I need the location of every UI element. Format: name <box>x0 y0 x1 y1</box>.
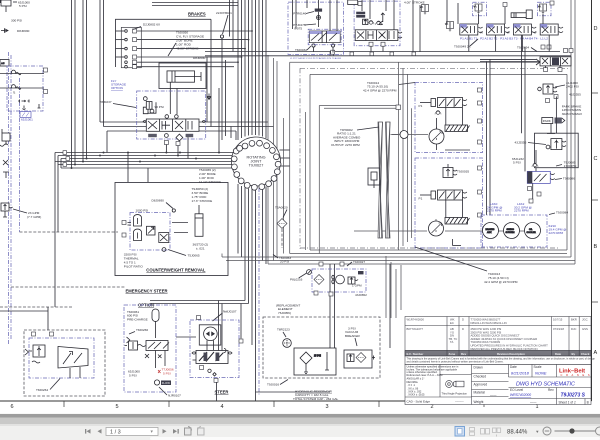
svg-text:1 GPM: 1 GPM <box>352 284 362 288</box>
valve bank drain stubs <box>230 0 550 53</box>
svg-text:10/7/15: 10/7/15 <box>553 318 563 322</box>
svg-text:2270 RPM: 2270 RPM <box>514 209 529 213</box>
svg-text:Approved: Approved <box>474 383 488 387</box>
svg-text:T9J0627: T9J0627 <box>249 164 264 168</box>
zone tick right 2 <box>592 199 599 201</box>
svg-text:8/21/2018: 8/21/2018 <box>511 371 530 376</box>
tiny anchor right <box>38 104 41 108</box>
oil cooler ports top <box>319 262 323 266</box>
rotating joint T9J0627 <box>231 137 281 190</box>
gauge <box>299 270 312 278</box>
P7R0146 coil <box>315 9 322 12</box>
EMERGENCY STEER OPTION title <box>126 289 168 308</box>
P7R orifice <box>317 12 321 27</box>
blue valve bottom <box>20 112 33 122</box>
svg-text:1700 PSI: 1700 PSI <box>564 164 577 168</box>
svg-text:5 PSI: 5 PSI <box>163 372 171 376</box>
label T5J0065 <box>168 250 200 258</box>
svg-text:T9J0084: T9J0084 <box>556 211 568 215</box>
T9J0054 ports <box>544 68 548 72</box>
zoom slider <box>555 430 596 432</box>
svg-text:⇅: ⇅ <box>13 91 16 95</box>
enclosure bottom bundle <box>222 250 575 264</box>
brakes port squares below <box>164 141 168 145</box>
zoom out btn <box>543 427 551 435</box>
lower hatched comp <box>445 218 470 225</box>
svg-text:07/19/18: 07/19/18 <box>553 327 564 331</box>
label T9J0013 <box>415 247 518 284</box>
label L4/10 tags <box>487 202 532 213</box>
enclosure box solid v2 <box>309 74 311 250</box>
cw drain circle <box>162 248 166 252</box>
upper hatched comp <box>445 125 470 132</box>
svg-text:Material: Material <box>474 391 486 395</box>
motor circle 2 <box>504 223 520 239</box>
vacuum breaker <box>344 350 375 368</box>
label 65J1232 5 PSI <box>512 157 524 165</box>
svg-text:5: 5 <box>115 404 118 410</box>
T8J0264 outer dashed box <box>24 330 105 396</box>
horizontal bus to rotating joint <box>55 153 234 169</box>
orbitrol <box>199 325 221 350</box>
svg-text:BREAKER: BREAKER <box>345 334 361 338</box>
svg-text:P8L0216: P8L0216 <box>290 278 303 282</box>
third angle projection symbol <box>446 381 464 388</box>
view icon two-page-scroll <box>493 428 501 437</box>
svg-text:SWING: SWING <box>507 229 515 231</box>
svg-text:P1 A1 B1 T1 · P2 A2 B2 T2 · P3: P1 A1 B1 T1 · P2 A2 B2 T2 · P3 A3 B3 T3 … <box>460 37 548 41</box>
svg-text:SYSTEM: SYSTEM <box>506 232 515 234</box>
shaft coupler circle <box>392 131 408 139</box>
label T9J0086 <box>555 177 575 181</box>
oil cooler blue box <box>312 269 366 292</box>
top right cylinder <box>511 10 532 19</box>
svg-text:W: W <box>507 31 510 35</box>
label T9J0084 <box>549 211 568 215</box>
label 41J1000 2402 PSI <box>555 81 579 89</box>
label T9H0002 <box>331 127 379 147</box>
svg-text:Date: Date <box>510 365 517 369</box>
svg-text:BKR: BKR <box>571 318 577 322</box>
svg-text:43J2555: 43J2555 <box>569 93 581 97</box>
reservoir dashed box <box>263 317 380 378</box>
nav first-page btn <box>85 429 91 434</box>
label D2J0802 6X <box>133 23 160 30</box>
rotate icon 2 <box>197 427 204 436</box>
zone tick right 1 <box>592 92 599 94</box>
enclosure drop wires <box>386 256 401 318</box>
svg-text:± .021: ± .021 <box>196 247 205 251</box>
brakes right edge wires <box>207 19 226 140</box>
svg-text:D: D <box>594 26 598 32</box>
proprietary notice <box>405 356 591 365</box>
svg-text:T8J0032: T8J0032 <box>295 48 307 52</box>
top valve bank collector bus <box>205 52 571 56</box>
leader 23gpm <box>13 209 27 213</box>
far-left blue dashed risers <box>9 52 20 345</box>
label 23 GPM <box>27 211 41 219</box>
enclosure box dashed vertical <box>299 68 301 249</box>
flow meter icon <box>154 380 171 385</box>
svg-text:W: W <box>534 31 537 35</box>
connector ports <box>125 29 137 69</box>
fly storage cylinder <box>159 63 206 114</box>
svg-text:REMOVED ALL PREVIOUS REV. BLOC: REMOVED ALL PREVIOUS REV. BLOCK NOTATION <box>471 347 538 351</box>
PARK box <box>542 118 565 124</box>
label T8J0266 <box>129 328 148 334</box>
label 3 PSI VACUUM BREAKER <box>345 327 361 347</box>
Link-Belt logo <box>558 366 592 377</box>
nav prev btn <box>98 429 102 434</box>
svg-text:P1: P1 <box>419 104 423 108</box>
svg-text:JGC: JGC <box>582 318 588 322</box>
enclosure top horizontals <box>290 62 571 108</box>
label T9J0050 CYL FLY STORAGE <box>168 31 204 57</box>
nav last-page btn <box>173 429 179 434</box>
top right relief2 + box <box>538 2 552 16</box>
pedal coils <box>356 12 365 18</box>
sheet right border <box>591 0 593 401</box>
collector port squares <box>330 52 416 110</box>
label T9J0049 2X <box>454 39 478 49</box>
counterweight blue box <box>130 213 170 251</box>
svg-text:Scale: Scale <box>534 365 542 369</box>
enclosure top dash-dot <box>300 67 569 69</box>
FLY STORAGE OPTION blue label <box>111 79 126 90</box>
enclosure bottom dash-dot <box>300 247 560 249</box>
label T9J0050 (2) <box>192 187 213 203</box>
label NJR0107 <box>159 387 181 398</box>
reservoir risers <box>256 264 391 392</box>
svg-text:3: 3 <box>325 404 328 410</box>
svg-text:4: 4 <box>220 404 223 410</box>
orifice check CW2 <box>0 85 44 90</box>
svg-text:L1 P2 T1 A1 B2 C1 D1 P3 T2 A2: L1 P2 T1 A1 B2 C1 D1 P3 T2 A2 B2 L2 P4 T… <box>290 57 342 60</box>
svg-text:DJC: DJC <box>571 327 576 331</box>
svg-text:D: D <box>462 327 464 331</box>
inner blue box P7R <box>308 29 341 45</box>
svg-text:PRE-CHARGE: PRE-CHARGE <box>127 317 148 321</box>
svg-text:T8J0266: T8J0266 <box>136 328 148 332</box>
upper pump blue box <box>415 83 483 153</box>
svg-text:WRS7402000: WRS7402000 <box>510 393 531 397</box>
top right relief3 <box>420 5 429 15</box>
svg-text:——: —— <box>530 400 537 404</box>
svg-text:5 PSI: 5 PSI <box>19 4 27 8</box>
top wires above BRAKES <box>152 3 238 6</box>
zone tick bottom 2 <box>168 401 170 407</box>
svg-text:Referenced case: P.A.A. - ASM: Referenced case: P.A.A. - ASM <box>407 373 443 377</box>
svg-text:90 PSI: 90 PSI <box>155 105 164 109</box>
label PARK BRAKE psi <box>562 105 582 116</box>
ports right of bank labels <box>541 45 545 49</box>
view icon scroll <box>468 427 476 436</box>
check 65J1232 <box>532 163 538 167</box>
reservoir caption <box>293 390 339 401</box>
wire x219 <box>218 88 220 153</box>
blue dashed riser below joint <box>258 188 260 395</box>
steer blue box <box>190 320 239 378</box>
ports far right pair <box>564 49 568 53</box>
svg-text:T8J0264: T8J0264 <box>36 388 48 392</box>
T9J0054 valve <box>536 57 571 66</box>
svg-text:C R A N E S: C R A N E S <box>561 373 592 377</box>
cooler motor <box>336 275 345 284</box>
T9J0086 ports <box>528 187 532 191</box>
svg-text:2270 RPM: 2270 RPM <box>487 209 502 213</box>
label T8R2123 <box>277 328 290 338</box>
svg-text:B0773G1077: B0773G1077 <box>407 327 424 331</box>
svg-text:NJR0107: NJR0107 <box>168 394 181 398</box>
svg-text:OPTION: OPTION <box>111 86 123 90</box>
svg-text:and details contained herein i: and details contained herein is protecte… <box>407 361 504 364</box>
lower solenoid valve <box>431 190 467 200</box>
svg-text:Checked: Checked <box>474 375 487 379</box>
cooler ports below <box>314 291 318 295</box>
svg-text:88.44%: 88.44% <box>507 430 528 436</box>
cw valve1 <box>147 226 156 235</box>
svg-text:T5J0065: T5J0065 <box>188 254 200 258</box>
svg-text:Revision Description: Revision Description <box>497 352 525 356</box>
svg-text:W1R74X0000: W1R74X0000 <box>407 318 425 322</box>
lower pump blue box <box>415 158 483 248</box>
port circle cw <box>172 209 175 212</box>
enclosure outer verticals left <box>268 55 277 264</box>
svg-text:TA: TA <box>450 340 454 344</box>
svg-text:PARK: PARK <box>543 119 551 123</box>
central riser bundle below rotating joint <box>238 184 266 401</box>
svg-text:Check: Check <box>581 352 590 356</box>
label T8J0063 20 PSI <box>273 255 291 264</box>
svg-text:W: W <box>480 31 483 35</box>
svg-text:AUX: AUX <box>487 231 492 234</box>
svg-text:Rev: Rev <box>548 388 554 392</box>
svg-text:1 / 3: 1 / 3 <box>110 430 121 436</box>
label T8J0264 <box>36 379 60 393</box>
check arrow left <box>1 29 8 33</box>
emergency steer blue box <box>124 305 176 392</box>
valve 65J1000 top-left <box>1 0 11 12</box>
stub junction dots <box>237 30 253 63</box>
brakes bank drains <box>148 134 193 141</box>
svg-text:TOTAL SYSTEM CAP - 262 GAL: TOTAL SYSTEM CAP - 262 GAL <box>293 397 339 401</box>
svg-text:0.075: 0.075 <box>294 27 302 31</box>
svg-text:(7.7 GPM): (7.7 GPM) <box>27 215 41 219</box>
wires joint to enclosure <box>280 150 290 166</box>
small comp at gearbox <box>368 168 380 188</box>
brakes valve blue box <box>137 91 206 139</box>
zone tick bottom 1 <box>63 401 65 407</box>
upper pump solenoid valve <box>431 98 467 108</box>
bus elbow port squares <box>63 151 70 167</box>
svg-text:42.4 GPM @ 2270 RPM: 42.4 GPM @ 2270 RPM <box>363 88 397 92</box>
svg-text:4.00" STROKE: 4.00" STROKE <box>404 1 425 5</box>
brakes bank drop connectors <box>166 137 188 159</box>
T8J0264 ports top <box>32 332 36 336</box>
accumulator <box>152 309 159 338</box>
park ports <box>546 99 550 103</box>
pressure reducing 90psi <box>143 97 156 114</box>
svg-text:17.3" STROKE: 17.3" STROKE <box>192 199 213 203</box>
svg-text:Weight: Weight <box>474 400 484 404</box>
svg-text:BRAKES: BRAKES <box>486 228 495 231</box>
view icon single-page (selected) <box>455 427 465 437</box>
svg-text:T8J0237: T8J0237 <box>100 100 112 104</box>
svg-text:Date: Date <box>555 352 562 356</box>
label P7J0478 <box>293 23 316 31</box>
P7R feed wires <box>293 0 297 29</box>
svg-text:EC: EC <box>450 321 454 325</box>
svg-text:43J0652: 43J0652 <box>355 293 367 297</box>
enclosure inner vertical <box>318 106 320 254</box>
zone letters <box>594 26 598 356</box>
svg-text:Sheet 1 of 1: Sheet 1 of 1 <box>559 400 576 404</box>
svg-text:E.C. Number: E.C. Number <box>407 352 425 356</box>
page input 1/3 <box>106 428 158 436</box>
svg-text:D2J0802 6X: D2J0802 6X <box>143 23 160 27</box>
steer feed elbows <box>150 301 252 353</box>
svg-text:——: —— <box>490 394 497 398</box>
enclosure right verticals <box>567 0 575 264</box>
top right relief1 + box <box>473 2 487 16</box>
pedal ports below <box>369 42 373 46</box>
svg-text:D8G01-LIN WAS D8G01-LIN: D8G01-LIN WAS D8G01-LIN <box>471 321 507 325</box>
svg-text:T9J0054: T9J0054 <box>517 46 529 50</box>
svg-text:2: 2 <box>430 404 433 410</box>
svg-text:DWG HYD SCHEMATIC: DWG HYD SCHEMATIC <box>516 382 575 388</box>
port below P7R <box>331 50 335 54</box>
motors blue box <box>481 215 547 247</box>
counterweight outer rect <box>115 183 228 276</box>
top right port 02 <box>503 3 507 7</box>
lower relief <box>443 168 457 178</box>
upper pump wires <box>420 103 470 151</box>
lower pump wires <box>420 164 463 246</box>
connector stubs <box>116 31 253 67</box>
rotate icon 1 <box>185 427 192 436</box>
svg-text:42.4 GPM @ 2270 RPM: 42.4 GPM @ 2270 RPM <box>484 280 518 284</box>
steer label 8J0107 <box>213 310 237 322</box>
revision table <box>405 317 591 357</box>
label 3200 PSI THERMAL <box>124 253 144 269</box>
cw relief pair <box>128 215 142 241</box>
label T8J0237 <box>100 100 137 108</box>
upper check <box>435 111 441 115</box>
svg-text:1000 PSI: 1000 PSI <box>136 209 149 213</box>
em steer valve cluster <box>125 337 170 368</box>
pedal checks <box>368 21 374 25</box>
port circle 22J <box>220 35 223 38</box>
motor circle 1 <box>483 223 499 239</box>
svg-text:STEER: STEER <box>215 390 229 395</box>
brakes valve bank <box>143 115 205 132</box>
drive shaft line <box>354 135 540 232</box>
zone tick bottom 5 <box>483 401 485 407</box>
svg-text:NONE: NONE <box>535 371 547 376</box>
label T5J0065 (2) <box>199 168 221 184</box>
lower pump circle <box>429 219 444 236</box>
cw valve2 X <box>159 233 169 243</box>
view icon two-page <box>481 429 490 435</box>
svg-text:5 PSI: 5 PSI <box>513 161 521 165</box>
left valve group blue box <box>7 66 43 111</box>
blue port label row <box>290 57 342 60</box>
steer drain wire <box>216 382 218 401</box>
left drop wires <box>55 162 58 308</box>
label 65J1000 5PSI em <box>128 370 140 378</box>
svg-text:Third Angle Projection: Third Angle Projection <box>442 392 468 396</box>
label 36/2T20 <box>193 243 209 251</box>
park pressure valve <box>538 84 557 94</box>
park lower valve <box>546 139 566 150</box>
enclosure extra verticals <box>283 118 285 254</box>
label T9J0016 <box>267 380 288 387</box>
svg-text:GSS: GSS <box>582 327 588 331</box>
top right relief4 <box>445 22 454 32</box>
connector D2J0802 frame <box>121 27 141 67</box>
svg-text:By: By <box>572 352 576 356</box>
left edge relief cluster <box>0 203 13 217</box>
svg-text:2270 RPM: 2270 RPM <box>549 231 564 235</box>
zone numbers <box>10 404 538 410</box>
svg-text:C: C <box>594 156 598 162</box>
svg-text:6: 6 <box>10 404 13 410</box>
gearbox shaft right <box>386 122 391 238</box>
svg-text:D8J0690: D8J0690 <box>193 56 206 60</box>
svg-text:A: A <box>594 350 598 356</box>
T8J0264 blue box <box>29 338 94 378</box>
svg-text:25 PSI: 25 PSI <box>314 356 321 358</box>
label P7R0146 <box>293 12 314 16</box>
svg-text:1: 1 <box>535 404 538 410</box>
label D8J0690c <box>152 199 174 209</box>
steer drains <box>200 339 244 382</box>
svg-text:T9J0049 2X: T9J0049 2X <box>454 45 471 49</box>
park lower box <box>535 133 579 168</box>
cw ports left <box>122 221 126 225</box>
svg-text:T9J0086: T9J0086 <box>563 177 575 181</box>
top cut cylinder <box>348 0 362 6</box>
check arrow cyl <box>207 94 211 100</box>
label T8J0061 600 PSI <box>127 310 148 321</box>
nav next btn <box>163 429 167 434</box>
svg-text:COUNTERWEIGHT REMOVAL: COUNTERWEIGHT REMOVAL <box>146 268 206 273</box>
steer valve block <box>192 349 232 364</box>
cooler filter <box>314 275 324 285</box>
svg-text:300 PSI: 300 PSI <box>11 19 22 23</box>
P7R valve pair <box>309 31 340 47</box>
tiny tee <box>23 106 26 110</box>
red label T7J0056 <box>162 368 174 376</box>
label 64/10 right <box>549 224 567 235</box>
svg-text:P1: P1 <box>419 197 423 201</box>
motor circle 3 <box>525 223 541 239</box>
main valve bank 4x <box>460 24 563 35</box>
svg-text:OUTPUT: 2270 RPM: OUTPUT: 2270 RPM <box>331 143 360 147</box>
T8J0264 directional valve <box>58 347 88 379</box>
zone tick bottom 4 <box>378 401 380 407</box>
steer ports top <box>197 316 201 320</box>
svg-text:PILOT RATIO: PILOT RATIO <box>124 265 144 269</box>
gearbox shaft left <box>378 122 383 238</box>
svg-text:Zone: Zone <box>449 352 456 356</box>
cw cylinder <box>172 205 203 236</box>
svg-text:2402 PSI: 2402 PSI <box>566 85 579 89</box>
svg-text:D8J0690: D8J0690 <box>152 199 165 203</box>
svg-text:______: ______ <box>454 400 464 403</box>
svg-text:EO Level: EO Level <box>510 388 523 392</box>
svg-text:EMERGENCY STEER: EMERGENCY STEER <box>126 289 168 294</box>
